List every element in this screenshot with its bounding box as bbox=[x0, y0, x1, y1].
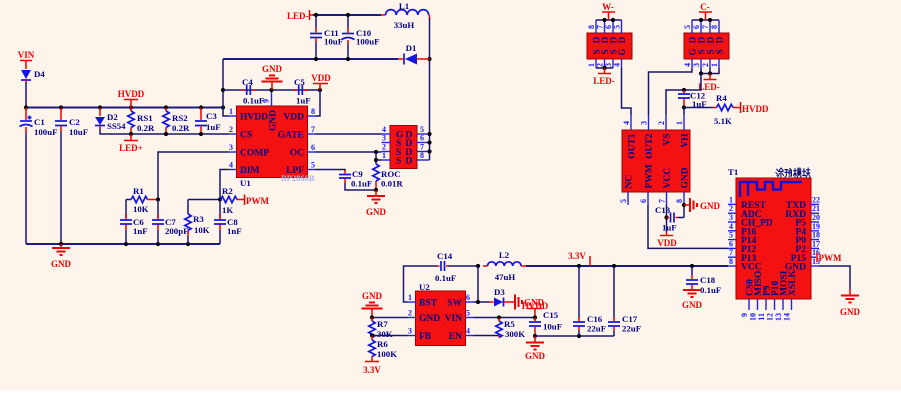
pin 5 NC bbox=[627, 192, 629, 205]
svg-text:NC: NC bbox=[625, 175, 635, 189]
svg-text:S: S bbox=[396, 157, 401, 167]
power port HVDD (U2) bbox=[522, 301, 549, 318]
wire C4/C5 row bbox=[223, 89, 320, 91]
wire W- gate to driver OUT1 bbox=[622, 68, 632, 115]
svg-text:U2: U2 bbox=[419, 282, 430, 292]
wire HVDD rail bbox=[26, 107, 223, 109]
pin 18 P0 bbox=[811, 239, 819, 241]
svg-text:RS1: RS1 bbox=[137, 113, 153, 123]
resistor RS2 0.2R bbox=[163, 108, 190, 135]
pin 7 W- bbox=[604, 20, 606, 33]
diode D2 SS54 bbox=[95, 108, 126, 132]
svg-text:W-: W- bbox=[602, 2, 614, 12]
resistor R7 30K bbox=[369, 318, 393, 340]
wire OC jog pin2 bbox=[375, 151, 377, 154]
pin 2 S bbox=[382, 151, 391, 153]
svg-text:6: 6 bbox=[311, 143, 315, 152]
pin 4 OUT1 bbox=[630, 115, 632, 130]
pin 7 P13 bbox=[728, 256, 736, 258]
svg-text:22: 22 bbox=[812, 195, 820, 204]
ground GND (ROC) bbox=[366, 190, 387, 217]
svg-text:22uF: 22uF bbox=[587, 324, 606, 334]
svg-text:GND: GND bbox=[269, 110, 279, 131]
resistor R1 10K bbox=[126, 186, 158, 214]
antenna meander bbox=[740, 182, 802, 197]
wire GND pin to ground bbox=[819, 266, 850, 289]
svg-text:8: 8 bbox=[710, 25, 719, 29]
capacitor C10 bbox=[342, 15, 380, 59]
svg-text:0.1uF: 0.1uF bbox=[435, 273, 456, 283]
pin 3 S bbox=[382, 142, 391, 144]
wire GND pin riser bbox=[683, 205, 685, 218]
pin 21 RXD bbox=[811, 212, 819, 214]
module T1 Tuya wifi module bbox=[728, 167, 811, 299]
wire OC to pin1 bbox=[376, 159, 382, 161]
svg-text:5: 5 bbox=[311, 161, 315, 170]
wire EN to R5 bbox=[474, 335, 500, 337]
capacitor C5 bbox=[293, 77, 311, 106]
svg-text:1: 1 bbox=[710, 63, 719, 67]
svg-text:10uF: 10uF bbox=[69, 127, 88, 137]
svg-text:19: 19 bbox=[812, 222, 820, 231]
svg-text:VIN: VIN bbox=[445, 314, 463, 324]
pin 2 U1 bbox=[229, 133, 237, 135]
svg-text:VH: VH bbox=[681, 133, 691, 148]
svg-text:EN: EN bbox=[449, 332, 462, 342]
resistor R4 5.1K bbox=[684, 93, 740, 126]
wire W- source bar bbox=[596, 67, 613, 69]
svg-text:20: 20 bbox=[812, 213, 820, 222]
pin 8 GND bbox=[683, 192, 685, 205]
pin 5 W- bbox=[621, 20, 623, 33]
wire LED- rail bbox=[313, 14, 381, 16]
svg-text:T1: T1 bbox=[728, 167, 738, 177]
svg-text:GND: GND bbox=[525, 351, 546, 361]
wire C1 to GND rail bbox=[25, 133, 27, 244]
pin 4 P16 bbox=[728, 230, 736, 232]
svg-text:BST: BST bbox=[419, 299, 438, 309]
wire SW node bbox=[474, 266, 490, 302]
svg-text:0.2R: 0.2R bbox=[172, 123, 190, 133]
svg-text:LED-: LED- bbox=[287, 11, 309, 21]
svg-text:D1: D1 bbox=[406, 43, 417, 53]
svg-text:1uF: 1uF bbox=[296, 96, 311, 106]
svg-text:C4: C4 bbox=[242, 77, 253, 87]
pin 3 CH_PD bbox=[728, 221, 736, 223]
svg-text:C17: C17 bbox=[622, 314, 638, 324]
svg-text:10uF: 10uF bbox=[324, 37, 343, 47]
svg-text:1uF: 1uF bbox=[206, 122, 221, 132]
pin 1 W- bbox=[595, 59, 597, 68]
svg-text:10K: 10K bbox=[194, 225, 210, 235]
power port W- bbox=[602, 2, 615, 20]
inductor L1 33uH bbox=[381, 1, 430, 30]
svg-text:C15: C15 bbox=[543, 310, 559, 320]
svg-text:D: D bbox=[714, 36, 724, 43]
wire C18 node riser bbox=[691, 265, 693, 267]
svg-text:1: 1 bbox=[729, 195, 733, 204]
pin 10 MISO bbox=[757, 299, 759, 310]
power port VDD (U1) bbox=[311, 73, 331, 90]
svg-text:5: 5 bbox=[729, 231, 733, 240]
ground GND (D3, sideways) bbox=[515, 295, 545, 310]
svg-text:LED-: LED- bbox=[593, 76, 615, 86]
svg-text:L2: L2 bbox=[499, 250, 510, 260]
op-amp U1 LED driver IC bbox=[237, 106, 315, 188]
capacitor C8 bbox=[214, 200, 242, 245]
pin 6 C- bbox=[700, 20, 702, 33]
resistor R2 1K bbox=[221, 186, 245, 215]
svg-text:6: 6 bbox=[639, 199, 648, 203]
power port HVDD bbox=[118, 89, 145, 108]
svg-text:C1: C1 bbox=[34, 117, 45, 127]
svg-text:DIM: DIM bbox=[240, 166, 260, 176]
svg-text:100K: 100K bbox=[377, 349, 397, 359]
svg-text:1: 1 bbox=[675, 121, 684, 125]
svg-text:PWM: PWM bbox=[819, 253, 842, 263]
wire VCC down to VDD bbox=[666, 205, 668, 232]
svg-text:17: 17 bbox=[812, 239, 820, 248]
svg-text:R5: R5 bbox=[504, 319, 515, 329]
wire VDD to pin 8 bbox=[316, 90, 321, 116]
svg-text:VDD: VDD bbox=[657, 238, 677, 248]
svg-text:VDD: VDD bbox=[311, 73, 331, 83]
capacitor C1 bbox=[20, 108, 58, 138]
ground GND (driver, sideways) bbox=[684, 198, 721, 212]
power port LED- (W-) bbox=[593, 68, 615, 86]
svg-text:7: 7 bbox=[701, 25, 710, 29]
svg-text:D3: D3 bbox=[494, 287, 505, 297]
svg-text:PWM: PWM bbox=[246, 196, 269, 206]
wire C- top bar bbox=[692, 19, 719, 21]
pin 9 U1 bbox=[271, 92, 273, 106]
svg-text:C14: C14 bbox=[437, 251, 453, 261]
svg-text:FB: FB bbox=[419, 332, 432, 342]
svg-text:100uF: 100uF bbox=[356, 37, 379, 47]
wire BST to C14 bbox=[404, 266, 438, 302]
pin 5 D bbox=[417, 133, 430, 135]
svg-text:6: 6 bbox=[466, 293, 470, 302]
svg-text:4: 4 bbox=[622, 121, 631, 125]
wire C- gate to driver OUT2 bbox=[649, 68, 693, 115]
pin 8 C- bbox=[718, 20, 720, 33]
svg-text:XSLK: XSLK bbox=[788, 270, 798, 296]
svg-text:3: 3 bbox=[408, 327, 412, 336]
svg-text:C13: C13 bbox=[655, 205, 671, 215]
transistor pack C- (top) bbox=[684, 33, 729, 59]
svg-text:8: 8 bbox=[420, 151, 424, 160]
svg-text:2: 2 bbox=[408, 309, 412, 318]
pin 6 W- bbox=[612, 20, 614, 33]
svg-text:3: 3 bbox=[692, 63, 701, 67]
svg-text:GND: GND bbox=[682, 300, 703, 310]
pin 20 P5 bbox=[811, 221, 819, 223]
svg-text:8: 8 bbox=[675, 199, 684, 203]
svg-text:R6: R6 bbox=[377, 339, 388, 349]
svg-text:R2: R2 bbox=[222, 186, 233, 196]
pin 4 C- bbox=[691, 59, 693, 68]
node COMP junction bbox=[156, 197, 160, 201]
svg-text:D: D bbox=[617, 36, 627, 43]
pin 12 P10 bbox=[774, 299, 776, 310]
svg-text:G: G bbox=[617, 48, 627, 55]
svg-text:U1: U1 bbox=[240, 178, 251, 188]
node drain junctions bbox=[427, 132, 431, 136]
svg-text:C16: C16 bbox=[587, 314, 603, 324]
wire D4 to HVDD rail bbox=[25, 82, 27, 108]
resistor R6 100K bbox=[369, 336, 397, 362]
op-amp U3 gate driver IC bbox=[622, 130, 691, 192]
capacitor C18 bbox=[686, 266, 721, 295]
svg-text:LPF: LPF bbox=[286, 166, 304, 176]
svg-text:30K: 30K bbox=[377, 329, 393, 339]
pin 3 W- bbox=[612, 59, 614, 68]
svg-text:0.01R: 0.01R bbox=[381, 179, 403, 189]
svg-text:0.2R: 0.2R bbox=[137, 123, 155, 133]
pin 19 P4 bbox=[811, 230, 819, 232]
svg-text:ROC: ROC bbox=[381, 169, 401, 179]
svg-text:R4: R4 bbox=[716, 93, 727, 103]
ground GND above U1 bbox=[262, 64, 283, 90]
svg-text:4: 4 bbox=[466, 327, 470, 336]
svg-text:GND: GND bbox=[681, 167, 691, 188]
svg-text:200pF: 200pF bbox=[165, 226, 188, 236]
svg-text:HVDD: HVDD bbox=[240, 113, 268, 123]
power port 3.3V (R6) bbox=[363, 362, 381, 376]
svg-text:C-: C- bbox=[700, 2, 710, 12]
svg-text:D: D bbox=[406, 157, 413, 167]
svg-text:GND: GND bbox=[262, 64, 283, 74]
svg-text:OUT1: OUT1 bbox=[628, 133, 638, 159]
wire C- source bar bbox=[701, 68, 719, 74]
svg-text:3: 3 bbox=[729, 213, 733, 222]
svg-text:GND: GND bbox=[700, 201, 721, 211]
pin 16 P15 bbox=[811, 256, 816, 258]
svg-text:47uH: 47uH bbox=[495, 272, 516, 282]
capacitor C7 bbox=[152, 200, 188, 245]
pin 1 VH bbox=[683, 115, 685, 130]
wire OC to pack bbox=[316, 151, 382, 153]
svg-text:C2: C2 bbox=[69, 117, 80, 127]
wire pin1 jog bbox=[223, 108, 229, 117]
svg-text:COMP: COMP bbox=[240, 149, 269, 159]
resistor R5 300K bbox=[496, 318, 525, 340]
capacitor C3 bbox=[195, 108, 221, 135]
svg-text:C3: C3 bbox=[206, 111, 217, 121]
svg-text:1: 1 bbox=[229, 107, 233, 116]
power port VDD (driver) bbox=[657, 232, 677, 248]
svg-text:LED+: LED+ bbox=[119, 143, 143, 153]
op-amp U2 buck regulator bbox=[416, 282, 466, 346]
capacitor C17 bbox=[608, 266, 641, 336]
pin 7 D bbox=[417, 151, 430, 153]
pin 5 U1 bbox=[308, 169, 316, 171]
capacitor C9 bbox=[339, 169, 376, 190]
pin 7 U1 bbox=[308, 133, 316, 135]
wire VIN row bbox=[474, 317, 536, 319]
pin 1 U1 bbox=[229, 115, 237, 117]
pin 17 P2 bbox=[811, 247, 819, 249]
wire PWM to T1 P12 bbox=[648, 205, 728, 248]
svg-text:10K: 10K bbox=[133, 204, 149, 214]
svg-text:1nF: 1nF bbox=[133, 226, 148, 236]
svg-text:1uF: 1uF bbox=[662, 223, 677, 233]
wire node to R2/DIM bbox=[188, 200, 220, 215]
capacitor C11 bbox=[310, 15, 343, 59]
svg-text:33uH: 33uH bbox=[394, 20, 415, 30]
wire GATE to pack bbox=[316, 133, 382, 135]
transistor pack W- (top) bbox=[587, 33, 632, 59]
svg-text:5: 5 bbox=[683, 25, 692, 29]
wire CS rail to U1 pin 2 bbox=[131, 133, 229, 135]
svg-text:5.1K: 5.1K bbox=[714, 116, 732, 126]
svg-text:VIN: VIN bbox=[18, 50, 35, 60]
svg-text:300K: 300K bbox=[505, 329, 525, 339]
svg-text:5: 5 bbox=[466, 309, 470, 318]
svg-text:7: 7 bbox=[729, 248, 733, 257]
transistor pack Q1 (MOSFET array near U1) bbox=[390, 126, 417, 169]
svg-text:PWM: PWM bbox=[645, 164, 655, 188]
svg-text:S: S bbox=[714, 49, 724, 54]
inductor L2 47uH bbox=[483, 250, 526, 282]
diode D1 bbox=[398, 43, 430, 65]
svg-text:100uF: 100uF bbox=[34, 127, 57, 137]
power port 3.3V (rail) bbox=[568, 251, 590, 266]
svg-text:C18: C18 bbox=[700, 275, 716, 285]
svg-text:7: 7 bbox=[658, 199, 667, 203]
svg-text:0.1uF: 0.1uF bbox=[700, 285, 721, 295]
pin 2 C- bbox=[709, 59, 711, 68]
svg-text:2: 2 bbox=[229, 125, 233, 134]
svg-text:6: 6 bbox=[420, 134, 424, 143]
ground GND (U2 pin2, flipped) bbox=[362, 291, 383, 318]
pin 3 FB bbox=[408, 335, 416, 337]
resistor R3 10K bbox=[185, 214, 210, 244]
svg-text:VCC: VCC bbox=[663, 168, 673, 189]
svg-text:5: 5 bbox=[619, 199, 628, 203]
pin 7 VCC bbox=[666, 192, 668, 205]
wire 3.3V rail bbox=[526, 265, 728, 267]
pin 8 U1 bbox=[308, 115, 316, 117]
resistor ROC 0.01R bbox=[373, 152, 404, 190]
svg-text:8: 8 bbox=[311, 107, 315, 116]
pin 3 OUT2 bbox=[648, 115, 650, 130]
diode D3 bbox=[489, 287, 514, 307]
pin 4 G bbox=[382, 133, 391, 135]
svg-text:6: 6 bbox=[729, 239, 733, 248]
svg-text:RS2: RS2 bbox=[172, 113, 188, 123]
svg-text:HVDD: HVDD bbox=[742, 104, 769, 114]
pin 6 D bbox=[417, 142, 430, 144]
svg-text:5: 5 bbox=[613, 25, 622, 29]
wire HVDD top rail bbox=[223, 58, 398, 60]
capacitor C2 bbox=[55, 108, 88, 138]
power port PWM (T1) bbox=[817, 253, 842, 264]
svg-text:0.1uF: 0.1uF bbox=[351, 179, 372, 189]
svg-text:1: 1 bbox=[382, 151, 386, 160]
pin 22 TXD bbox=[811, 203, 819, 205]
wire output cap gnd rail bbox=[535, 335, 614, 337]
pin 6 P12 bbox=[728, 247, 736, 249]
pin 8 D bbox=[417, 159, 430, 161]
svg-text:2: 2 bbox=[657, 121, 666, 125]
pin 11 P9 bbox=[765, 299, 767, 310]
capacitor C16 bbox=[573, 266, 606, 336]
svg-text:2: 2 bbox=[729, 204, 733, 213]
pin 5 C- bbox=[691, 20, 693, 33]
pin 2 VS bbox=[665, 115, 667, 130]
svg-text:4: 4 bbox=[683, 63, 692, 67]
capacitor C14 bbox=[435, 251, 478, 283]
capacitor C6 bbox=[120, 200, 148, 245]
power port HVDD (R4) bbox=[741, 102, 769, 114]
pin 13 MOSI bbox=[782, 299, 784, 310]
svg-text:8: 8 bbox=[729, 257, 733, 266]
svg-text:10uF: 10uF bbox=[543, 322, 562, 332]
svg-text:18: 18 bbox=[812, 231, 820, 240]
ground GND (T1) bbox=[840, 289, 861, 317]
power port LED- (C-) bbox=[698, 74, 720, 93]
pin 14 XSLK bbox=[791, 299, 793, 310]
ground GND (C15) bbox=[525, 336, 546, 361]
wire LPF to C9 bbox=[316, 170, 346, 172]
svg-text:3.3V: 3.3V bbox=[568, 251, 586, 261]
pin 6 SW bbox=[466, 301, 474, 303]
power port C- bbox=[699, 2, 712, 20]
svg-text:0.1uF: 0.1uF bbox=[243, 96, 264, 106]
pin 15 GND bbox=[811, 265, 819, 267]
svg-text:7: 7 bbox=[311, 125, 315, 134]
pin 3 U1 bbox=[229, 151, 237, 153]
pin 4 EN bbox=[466, 335, 474, 337]
diode D4 bbox=[21, 69, 45, 82]
pin 5 VIN bbox=[466, 317, 474, 319]
svg-text:1K: 1K bbox=[222, 205, 233, 215]
svg-text:4: 4 bbox=[613, 63, 622, 67]
pin 8 VCC bbox=[728, 265, 736, 267]
svg-text:C9: C9 bbox=[352, 169, 363, 179]
wire COMP to node bbox=[158, 152, 229, 200]
wire W- top bar bbox=[596, 19, 622, 21]
power port VIN bbox=[18, 50, 35, 69]
svg-text:14: 14 bbox=[783, 313, 792, 321]
svg-text:C5: C5 bbox=[294, 77, 305, 87]
pin 9 CS0 bbox=[748, 299, 750, 310]
svg-text:6: 6 bbox=[692, 25, 701, 29]
wire L1 down to D1/pack drains bbox=[429, 18, 431, 160]
svg-text:R3: R3 bbox=[193, 214, 204, 224]
svg-text:OC: OC bbox=[290, 149, 304, 159]
svg-text:3: 3 bbox=[229, 143, 233, 152]
svg-text:CS: CS bbox=[240, 131, 252, 141]
wire GND pin row bbox=[372, 317, 408, 319]
svg-text:GND: GND bbox=[362, 291, 383, 301]
svg-text:VDD: VDD bbox=[283, 113, 304, 123]
wire VH riser bbox=[683, 108, 685, 116]
pin 5 P14 bbox=[728, 239, 736, 241]
svg-text:R7: R7 bbox=[377, 319, 388, 329]
svg-text:GND: GND bbox=[840, 307, 861, 317]
pin 6 U1 bbox=[308, 151, 316, 153]
pin 2 W- bbox=[604, 59, 606, 68]
svg-text:GND: GND bbox=[366, 207, 387, 217]
svg-text:1: 1 bbox=[408, 293, 412, 302]
svg-text:4: 4 bbox=[229, 161, 233, 170]
pin 2 ADC bbox=[728, 212, 736, 214]
capacitor C4 bbox=[241, 77, 264, 106]
capacitor C15 bbox=[529, 310, 562, 336]
svg-text:SW: SW bbox=[447, 299, 462, 309]
